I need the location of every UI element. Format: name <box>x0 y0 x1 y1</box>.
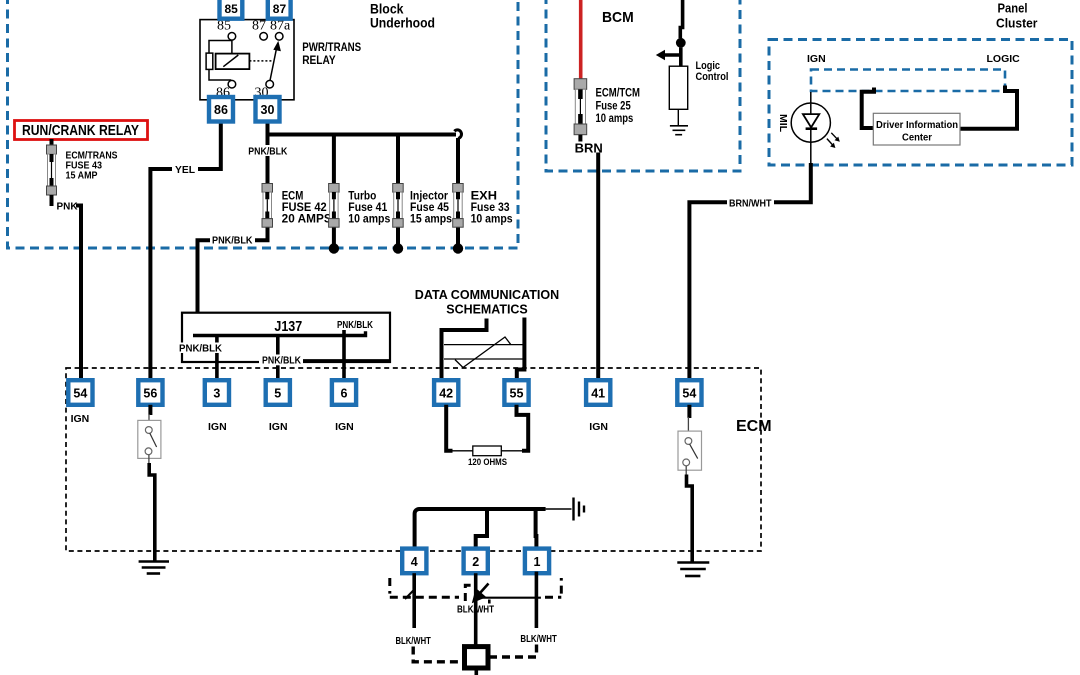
wire BRN from BCM to pin41 <box>596 153 600 382</box>
resistor 120 ohms <box>473 446 502 456</box>
MIL LED circle <box>791 103 830 142</box>
svg-text:120 OHMS: 120 OHMS <box>468 457 507 467</box>
pin box 56 <box>138 380 162 405</box>
relay linkage dotted <box>249 60 272 62</box>
svg-text:PNK/BLK: PNK/BLK <box>262 356 302 367</box>
svg-text:FUSE 42: FUSE 42 <box>282 202 327 214</box>
wire injector fuse to dot <box>396 227 400 248</box>
svg-text:30: 30 <box>261 103 275 117</box>
pin box 30 <box>256 97 280 122</box>
svg-text:Fuse 41: Fuse 41 <box>348 202 388 214</box>
svg-text:10 amps: 10 amps <box>348 214 390 226</box>
svg-text:Fuse 45: Fuse 45 <box>410 202 450 214</box>
svg-text:Panel: Panel <box>998 2 1028 16</box>
svg-text:Logic: Logic <box>696 60 721 72</box>
svg-text:LOGIC: LOGIC <box>987 53 1021 65</box>
svg-text:Fuse 25: Fuse 25 <box>596 100 632 112</box>
svg-text:4: 4 <box>411 555 418 569</box>
LED internals <box>810 104 812 115</box>
thin wire to right ground <box>546 508 572 510</box>
svg-text:IGN: IGN <box>807 53 826 65</box>
svg-text:EXH: EXH <box>471 191 497 203</box>
J137 internal bus <box>193 331 366 335</box>
BCM dashed box <box>546 0 740 171</box>
label YEL (with white bg) <box>172 163 198 175</box>
svg-text:MIL: MIL <box>777 114 789 133</box>
ground (right, rotated) <box>574 498 585 521</box>
bottom section: horizontal bus <box>415 509 546 549</box>
switch under pin 56 <box>148 405 152 415</box>
Logic Control box <box>669 66 687 109</box>
junction dot turbo <box>329 243 339 253</box>
wire drop to pin2 <box>476 509 487 549</box>
dashed wire pin1 to ground box <box>489 645 537 658</box>
switch under pin 54 right <box>687 405 691 418</box>
svg-text:BCM: BCM <box>602 9 634 26</box>
svg-text:IGN: IGN <box>269 421 288 433</box>
pin box 54 right <box>677 380 701 405</box>
pin box 4 <box>402 549 426 574</box>
relay outline box <box>200 20 294 100</box>
fuse Turbo Fuse 41 <box>329 184 340 228</box>
svg-text:56: 56 <box>143 387 157 401</box>
relay suppression resistor <box>206 53 213 69</box>
junction dot injector <box>393 243 403 253</box>
wire below ground box <box>474 668 478 675</box>
pin box 55 <box>504 380 528 405</box>
pin box 6 <box>332 380 356 405</box>
svg-text:87: 87 <box>273 2 287 16</box>
svg-text:85: 85 <box>225 2 239 16</box>
wire bus from pin30 <box>268 133 457 137</box>
pin box 85 <box>220 0 243 19</box>
wire drop to pin1 <box>534 509 539 549</box>
svg-text:BRN/WHT: BRN/WHT <box>729 198 772 209</box>
MIL wire below thin then thick <box>810 142 812 165</box>
wire 86 to YEL to pin 56 <box>150 122 220 381</box>
svg-text:PWR/TRANS: PWR/TRANS <box>302 42 361 54</box>
fuse ECM FUSE 42 <box>262 184 273 228</box>
wire switch56 to ground <box>148 455 150 464</box>
svg-text:54: 54 <box>73 387 87 401</box>
svg-text:YEL: YEL <box>175 164 196 176</box>
connector dashed outline bottom <box>390 578 562 601</box>
wire switch54 to ground <box>685 466 687 476</box>
wire turbo fuse to dot <box>332 227 336 248</box>
svg-text:3: 3 <box>213 387 220 401</box>
wire pin1 down <box>535 572 539 628</box>
svg-text:54: 54 <box>682 387 696 401</box>
BCM logic wire from top <box>680 0 682 38</box>
solid line pin2 to pin1 at connector <box>477 597 541 599</box>
wire label row to box right <box>301 359 389 362</box>
svg-text:IGN: IGN <box>71 413 90 425</box>
svg-text:Center: Center <box>902 131 932 143</box>
wire MIL to BRN/WHT to pin54 right <box>689 163 810 381</box>
svg-text:6: 6 <box>341 387 348 401</box>
wire drop exh fuse <box>456 138 460 184</box>
wire drop injector fuse <box>396 135 400 184</box>
svg-text:PNK/BLK: PNK/BLK <box>337 320 374 331</box>
wire run/crank box to fuse43 <box>50 139 54 146</box>
svg-text:ECM/TCM: ECM/TCM <box>596 88 641 100</box>
svg-text:Driver Information: Driver Information <box>876 119 958 131</box>
fuse ECM/TCM Fuse 25 <box>574 79 587 142</box>
svg-text:IGN: IGN <box>335 421 354 433</box>
label PNK/BLK (below pin30, white bg) <box>246 145 290 156</box>
wire exh fuse to dot <box>456 227 460 248</box>
arrow left <box>664 53 681 57</box>
wire fuse42 bottom to J137 <box>193 227 268 336</box>
svg-text:Cluster: Cluster <box>996 17 1038 31</box>
svg-text:15 amps: 15 amps <box>410 214 452 226</box>
pin box 54 <box>68 380 92 405</box>
svg-text:PNK/BLK: PNK/BLK <box>179 343 223 354</box>
relay terminal circle 87 <box>260 33 268 41</box>
relay terminal circle 86 <box>228 80 236 88</box>
120 ohm resistor wiring <box>446 405 452 451</box>
inner logic dashed box <box>811 70 1005 92</box>
ground (under 56) <box>139 562 169 574</box>
wire stub 85 box to relay <box>229 15 233 21</box>
relay blade arrowhead <box>273 41 281 51</box>
wire to pin5 <box>276 336 280 382</box>
RUN/CRANK RELAY red box <box>15 121 148 140</box>
relay coil box <box>216 54 250 70</box>
fuse EXH Fuse 33 <box>453 184 464 228</box>
svg-text:20 AMPS: 20 AMPS <box>282 214 332 226</box>
label PNK/BLK (fuse42 bottom, white bg) <box>210 234 255 246</box>
svg-text:BLK/WHT: BLK/WHT <box>396 636 431 647</box>
pin box 41 <box>586 380 610 405</box>
ground (logic control) <box>670 126 688 135</box>
svg-text:Underhood: Underhood <box>370 15 435 31</box>
wire pin2 down <box>474 573 478 646</box>
svg-text:15 AMP: 15 AMP <box>66 169 98 181</box>
relay coil diagonal <box>223 55 238 67</box>
svg-text:10 amps: 10 amps <box>471 214 513 226</box>
label PNK/BLK (pin3) <box>177 343 221 354</box>
svg-text:PNK/BLK: PNK/BLK <box>212 236 253 247</box>
svg-text:IGN: IGN <box>208 421 227 433</box>
pin box 87 <box>268 0 291 19</box>
ECM dashed box <box>66 368 761 551</box>
wire dot to logic control <box>679 48 683 67</box>
svg-text:RUN/CRANK RELAY: RUN/CRANK RELAY <box>22 123 139 139</box>
Block Underhood dashed box <box>8 0 519 248</box>
J137 box <box>182 313 390 362</box>
svg-text:Turbo: Turbo <box>348 191 376 203</box>
relay terminal circle 87a <box>275 33 283 41</box>
svg-text:SCHEMATICS: SCHEMATICS <box>446 302 528 317</box>
MIL wire thin above <box>810 92 812 104</box>
fuse ECM/TRANS FUSE 43 <box>47 145 57 195</box>
wire pin4 down <box>412 573 416 628</box>
pin box 5 <box>266 380 290 405</box>
comm symbol lines <box>444 337 523 368</box>
thick link left (driver info) <box>862 88 874 129</box>
Panel Cluster dashed box <box>769 40 1072 166</box>
pin box 2 <box>464 549 488 574</box>
pin box 3 <box>205 380 229 405</box>
junction dot <box>676 38 686 48</box>
arrow mark pin2 wire <box>480 584 489 594</box>
svg-text:87: 87 <box>252 19 266 34</box>
wire to pin6 <box>342 330 346 381</box>
svg-text:IGN: IGN <box>589 421 608 433</box>
ground connector box <box>465 647 489 668</box>
svg-text:Fuse 33: Fuse 33 <box>471 202 510 214</box>
Driver Information Center box <box>873 113 960 145</box>
BCM red wire <box>579 0 583 79</box>
svg-text:Injector: Injector <box>410 191 448 203</box>
svg-text:BLK/WHT: BLK/WHT <box>520 634 556 645</box>
relay switch blade <box>270 46 277 81</box>
ground (under 54 right) <box>677 563 709 577</box>
svg-text:86: 86 <box>214 103 228 117</box>
svg-text:ECM: ECM <box>736 418 772 435</box>
bus end curl <box>454 130 461 139</box>
svg-text:41: 41 <box>591 387 605 401</box>
svg-text:PNK: PNK <box>57 201 78 213</box>
pin box 42 <box>434 380 458 405</box>
svg-text:55: 55 <box>510 387 524 401</box>
wire data comm left to pin42 <box>442 319 487 382</box>
svg-text:BLK/WHT: BLK/WHT <box>457 605 494 616</box>
svg-text:5: 5 <box>274 387 281 401</box>
slash mark pin4 wire <box>405 589 415 599</box>
junction dot exh <box>453 243 463 253</box>
wire logic control to ground <box>677 109 679 125</box>
LED emission arrows <box>827 133 838 147</box>
relay terminal circle 85 <box>228 33 236 41</box>
svg-text:1: 1 <box>534 555 541 569</box>
wire data comm right to pin55 <box>517 318 525 382</box>
wire to pin3 <box>215 336 219 382</box>
svg-text:PNK/BLK: PNK/BLK <box>248 146 288 157</box>
wire fuse43 to PNK <box>50 195 54 206</box>
pin box 86 <box>209 97 233 122</box>
wire 30 down through bus to fuse42 <box>266 122 270 184</box>
svg-text:RELAY: RELAY <box>302 55 336 67</box>
fuse Injector Fuse 45 <box>393 184 404 228</box>
svg-text:2: 2 <box>472 555 479 569</box>
relay terminal circle 30 <box>266 80 274 88</box>
dashed wire pin4 to ground box <box>413 647 464 662</box>
thick link right (driver info) <box>960 86 1017 129</box>
label PNK/BLK (pin5) <box>259 355 303 366</box>
svg-text:DATA COMMUNICATION: DATA COMMUNICATION <box>415 287 559 302</box>
wire drop turbo fuse <box>332 135 336 184</box>
wire stub 87 box to relay <box>277 15 281 21</box>
svg-text:J137: J137 <box>274 319 302 335</box>
label BRN/WHT (white bg) <box>727 197 774 209</box>
svg-text:Control: Control <box>696 71 729 83</box>
relay coil wiring <box>209 40 232 80</box>
wire PNK to pin54 <box>76 206 81 382</box>
svg-text:42: 42 <box>439 387 453 401</box>
svg-text:10 amps: 10 amps <box>596 113 634 125</box>
svg-text:BRN: BRN <box>575 140 603 155</box>
svg-text:ECM: ECM <box>282 191 304 203</box>
pin box 1 <box>525 549 549 574</box>
